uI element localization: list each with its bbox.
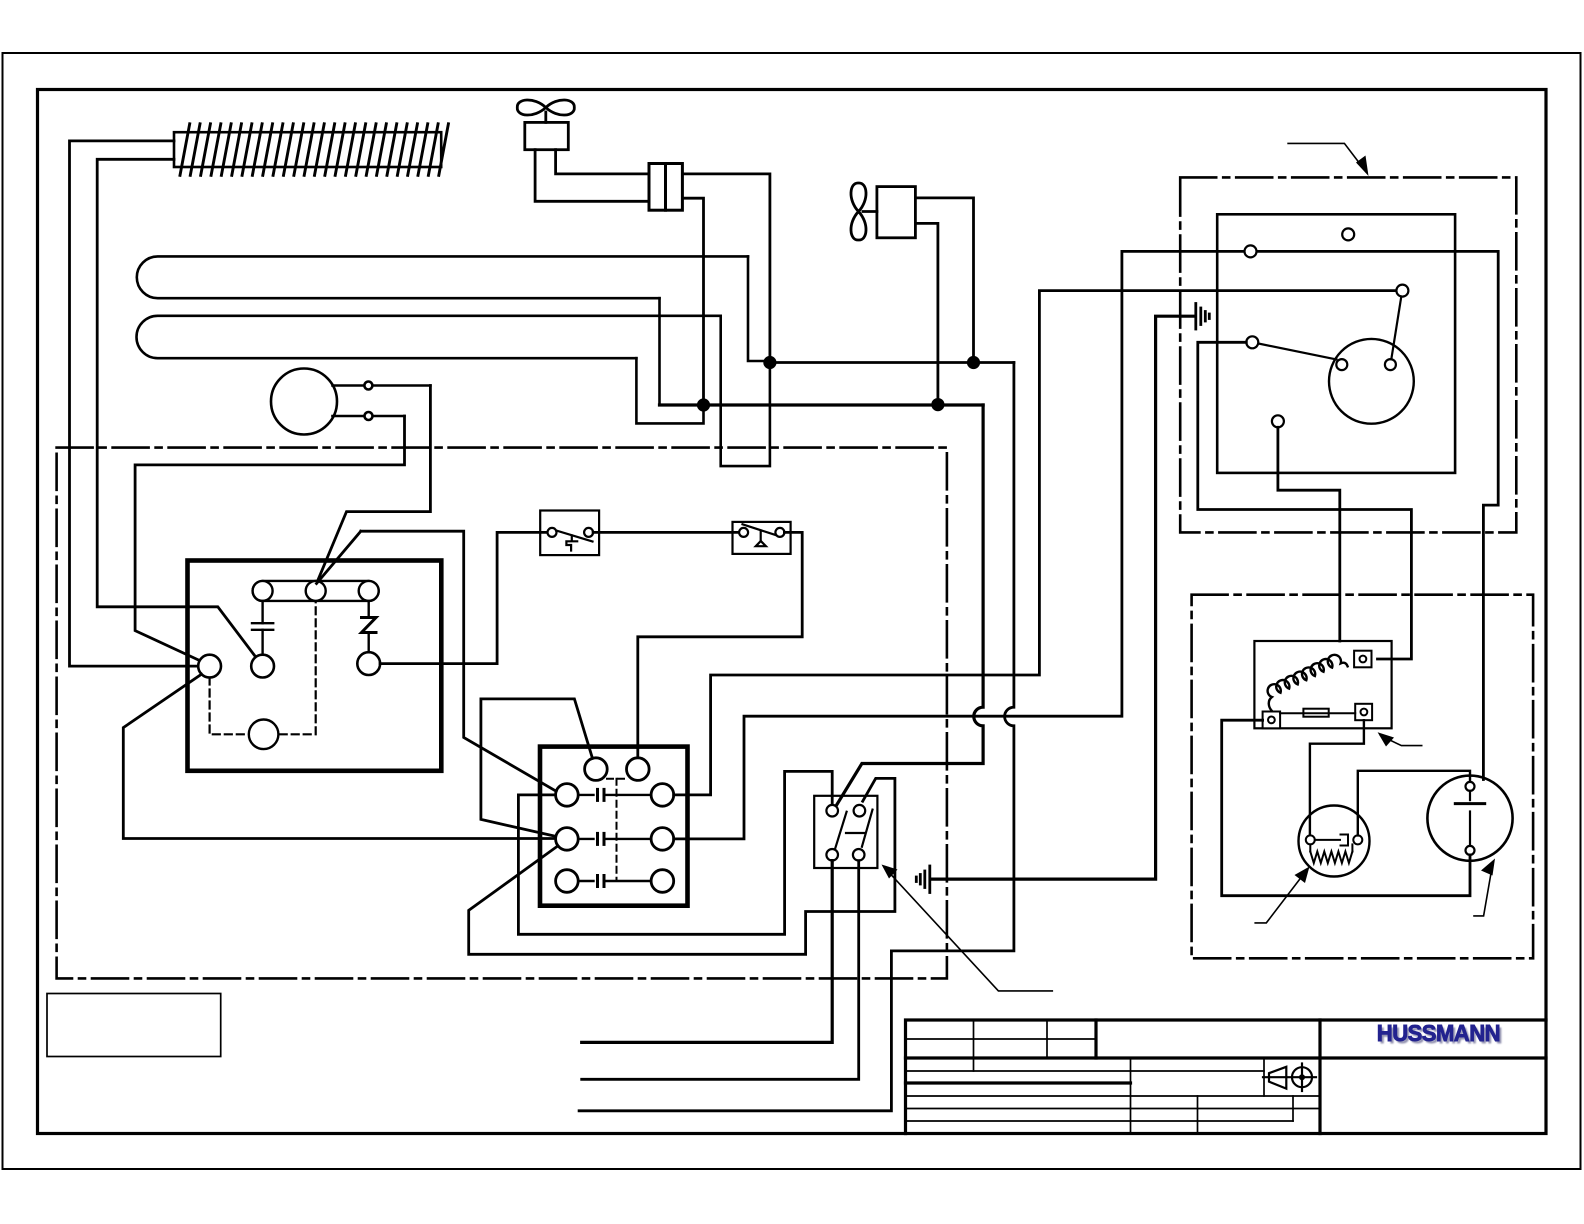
wire loop2 top under-route to node B (721, 316, 770, 466)
wire loop2 bottom under-route to node A (636, 358, 703, 423)
terminal squares SR1 (1263, 651, 1373, 729)
projection angle symbol (1263, 1064, 1316, 1092)
wire control box right terminal to defrost stat (380, 532, 547, 663)
label box bottom left (47, 994, 221, 1057)
coil start relay (1268, 655, 1348, 712)
fuse element SR1 (1280, 712, 1355, 714)
wire net B to bottom lead (with hop) (770, 361, 1014, 364)
compressor motor protector (1427, 776, 1512, 861)
wire control box left terminal to supply bus (123, 674, 555, 838)
wire loop1 top to node B (748, 256, 770, 361)
switch S2 fan delay thermostat (733, 522, 791, 554)
leader arrow start relay (1378, 732, 1422, 746)
start relay SR1 (1254, 641, 1391, 728)
leader arrow compressor (1474, 859, 1495, 916)
terminal strip 3 circles (253, 581, 379, 601)
wire SR1 bottom-right terminal to overload (1310, 720, 1364, 835)
wire T1 loop to L3 (481, 699, 593, 836)
boundary evaporator section dash-dot box (57, 448, 947, 979)
wire L2 to relay TL (518, 771, 832, 934)
fan motor M1 evaporator fan (517, 100, 574, 150)
wire loop1 bottom to node A (658, 298, 661, 405)
boundary timer enclosure dash-dot box (1180, 177, 1516, 532)
wire compressor bottom to SR1 bottom-left (1222, 720, 1470, 896)
terminal T1 (1342, 228, 1354, 240)
connector P1 plug (649, 164, 682, 211)
wire net A to relay coil (with hop) (660, 403, 984, 406)
wire S2 to terminal board T2 (638, 532, 802, 757)
overload protector OL1 (1299, 806, 1370, 877)
resistor evaporator heater loop 2 (137, 316, 721, 358)
wire T3 to motor (1391, 297, 1401, 360)
resistor evaporator heater loop 1 (137, 256, 748, 298)
node A junction dot (697, 398, 710, 411)
title block (906, 1020, 1547, 1134)
wire bulb top to timer terminal strip (317, 386, 431, 584)
fan motor M2 condenser fan (851, 183, 915, 240)
node B junction dot (763, 356, 776, 369)
wire heater left top to control box left terminal (70, 141, 199, 666)
wire plug top to node B (682, 174, 770, 363)
timer motor TM circle (1329, 339, 1414, 424)
wire fan2 top lead to node B2 (915, 198, 973, 363)
leader arrow overload (1255, 867, 1309, 923)
capacitor C1 (252, 601, 273, 655)
switch S1 defrost termination thermostat (540, 511, 599, 556)
wire plug bottom to node A (682, 198, 703, 405)
wire S1 to S2 (593, 531, 739, 534)
relay K1 fan relay (814, 796, 877, 868)
timer motor dashed linkage (210, 601, 316, 734)
wire strip middle to L2 (thermostat line) (317, 531, 557, 791)
wire ground bus (930, 316, 1194, 879)
wire R3 to timer T2 and compressor (674, 251, 1498, 839)
timer motor circle (249, 720, 279, 750)
node B2 junction dot (967, 356, 980, 369)
terminal circles TB (556, 758, 674, 893)
wire T6 to start relay box (1278, 427, 1340, 641)
terminal T2 (1245, 245, 1257, 257)
terminal T6 (1272, 415, 1284, 427)
control box U1 defrost control (188, 561, 442, 771)
wire overload to compressor top (1358, 771, 1470, 836)
overload element Z (362, 601, 377, 652)
terminal board TB contact block (540, 747, 688, 906)
wire relay BL to supply L1 (582, 861, 833, 1043)
wire relay BR to supply L2 (582, 861, 859, 1080)
resistor HTR1 defrost heater (174, 124, 448, 176)
wire bulb bottom to control box left terminal (135, 416, 404, 662)
wire fan1 right lead to plug (556, 150, 649, 174)
boundary condensing unit dash-dot box (1192, 595, 1534, 959)
thermostat sensing bulb (271, 369, 430, 435)
wire R2 to timer T3 (674, 291, 1397, 795)
wire T4 to motor (1258, 344, 1336, 360)
terminal T4 (1246, 336, 1258, 348)
node A2 junction dot (931, 398, 944, 411)
leader arrow relay (882, 865, 1053, 991)
ground chassis symbol right (1196, 304, 1210, 330)
contacts TB rows (578, 789, 651, 886)
timer TM1 defrost timer (1217, 214, 1455, 473)
wire fan2 bottom lead to node A2 (915, 223, 938, 404)
wire L3 to relay TR (469, 778, 895, 954)
linkage dashed TB (607, 779, 626, 881)
terminal circles control box (198, 655, 221, 678)
wire T4 to start relay (1198, 342, 1412, 659)
wire heater left bottom to capacitor terminal (97, 159, 262, 666)
ground chassis symbol left (916, 866, 930, 893)
leader arrow timer enclosure (1288, 143, 1368, 176)
terminal T3 (1396, 285, 1408, 297)
wire fan1 left lead to plug (535, 150, 649, 202)
